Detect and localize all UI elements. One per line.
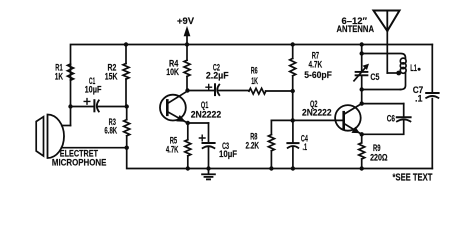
node bottom rail / R9 <box>360 166 364 170</box>
svg-text:10µF: 10µF <box>219 148 237 159</box>
svg-text:.1: .1 <box>415 93 422 103</box>
wire tank column below C5 <box>361 76 363 103</box>
node R6 / R7 <box>291 89 295 93</box>
capacitor C6 <box>362 104 411 135</box>
wire Q2 base row <box>271 119 343 121</box>
svg-text:C6: C6 <box>387 114 396 124</box>
svg-text:.1: .1 <box>303 142 308 153</box>
ground symbol <box>202 169 215 180</box>
svg-text:L1: L1 <box>410 63 417 74</box>
resistor R6 <box>219 65 293 94</box>
resistor R9 <box>359 134 388 168</box>
svg-text:4.7K: 4.7K <box>166 144 179 155</box>
node bottom rail / R5 <box>186 166 190 170</box>
node mic / R1 / C1 <box>68 104 72 108</box>
node Q1 emitter / R5 / C3 <box>186 121 190 125</box>
capacitor C3 <box>188 123 237 169</box>
svg-text:+9V: +9V <box>177 16 195 27</box>
node top rail / R7 <box>291 42 295 46</box>
svg-text:MICROPHONE: MICROPHONE <box>52 157 107 168</box>
node top rail / tank column <box>360 42 364 46</box>
resistor R4 <box>166 45 190 91</box>
svg-text:5-60pF: 5-60pF <box>304 70 332 80</box>
wire tank top line to L1 <box>362 54 406 59</box>
svg-text:4.7K: 4.7K <box>309 60 323 70</box>
svg-text:2.2K: 2.2K <box>246 140 260 150</box>
node bottom rail / R8 <box>269 166 273 170</box>
node tank bottom / L1 bottom <box>360 87 364 91</box>
wire Q2 collector to C6 <box>362 103 404 105</box>
transistor Q1 2N2222 <box>160 91 221 123</box>
resistor R8 <box>246 120 275 168</box>
wire right edge column (top rail to C7) <box>431 45 433 93</box>
node top rail / R4 +9V <box>185 42 189 46</box>
wire tank column above C5 <box>361 54 363 72</box>
svg-text:R9: R9 <box>373 143 381 154</box>
svg-text:10K: 10K <box>166 67 179 77</box>
svg-text:1K: 1K <box>55 71 64 81</box>
svg-text:*SEE TEXT: *SEE TEXT <box>393 171 433 182</box>
node Q2 base / C4 <box>291 118 295 122</box>
wire R7/R6 node down to Q2 base row <box>292 91 294 120</box>
wire Q2 collector column / tank column <box>361 45 363 54</box>
node top rail / R2 <box>124 42 128 46</box>
svg-text:ANTENNA: ANTENNA <box>337 23 374 34</box>
capacitor C4 <box>287 120 308 168</box>
node antenna tap on L1 <box>396 71 401 76</box>
svg-text:6.8K: 6.8K <box>104 125 117 136</box>
svg-text:220Ω: 220Ω <box>370 153 388 163</box>
svg-text:10µF: 10µF <box>85 85 102 95</box>
node Q2 emitter / C6 / R9 <box>360 132 364 136</box>
wire bottom ground rail <box>127 148 433 169</box>
antenna <box>337 11 400 74</box>
svg-text:15K: 15K <box>105 72 118 82</box>
wire Q1 collector node to C2 <box>188 90 215 92</box>
node bottom rail / C3 / ground <box>206 166 210 170</box>
node C1 / R2 / R3 / Q1 base <box>125 104 129 108</box>
wire antenna tap to L1 <box>387 72 398 74</box>
capacitor C1 <box>71 75 127 111</box>
resistor R5 <box>166 123 191 169</box>
capacitor C7 <box>413 85 439 104</box>
svg-text:2.2µF: 2.2µF <box>206 71 229 81</box>
wire top +9V supply rail <box>71 45 433 107</box>
resistor R3 <box>104 107 129 148</box>
node bottom rail / C4 <box>291 166 295 170</box>
resistor R7 <box>290 45 333 92</box>
node mic bottom / R3 bottom <box>125 146 129 150</box>
electret microphone MIC <box>36 107 127 168</box>
resistor R2 <box>105 45 129 107</box>
svg-text:C5: C5 <box>370 72 380 82</box>
wire right edge column (C7 to bottom rail) <box>431 99 433 169</box>
+9V supply arrow <box>177 16 195 45</box>
svg-text:2N2222: 2N2222 <box>191 110 222 120</box>
svg-text:2N2222: 2N2222 <box>302 107 332 117</box>
wire tank bottom line <box>362 89 401 91</box>
transistor Q2 2N2222 <box>302 99 362 135</box>
svg-text:1K: 1K <box>251 75 258 86</box>
variable capacitor C5 <box>354 64 380 82</box>
inductor L1 <box>400 58 420 89</box>
node Q2 collector / C6 <box>360 101 364 105</box>
capacitor C2 <box>206 62 229 95</box>
node tank top / L1 top <box>360 51 364 55</box>
junction node dots <box>68 42 401 170</box>
node Q1 collector / R4 / C2 <box>185 88 189 92</box>
resistor R1 <box>55 62 74 82</box>
